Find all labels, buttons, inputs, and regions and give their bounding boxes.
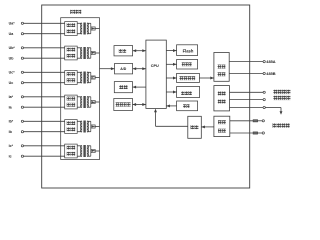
svg-text:Uc: Uc <box>9 81 14 85</box>
svg-text:Ua*: Ua* <box>9 22 16 26</box>
svg-text:485B: 485B <box>266 71 275 76</box>
svg-text:Ub: Ub <box>9 57 15 61</box>
svg-text:Ib*: Ib* <box>9 120 14 124</box>
svg-text:Ub*: Ub* <box>9 46 16 50</box>
svg-text:CPU: CPU <box>151 64 159 68</box>
svg-text:Ic*: Ic* <box>9 144 14 148</box>
svg-text:Ia*: Ia* <box>9 95 14 99</box>
svg-text:485A: 485A <box>266 59 275 64</box>
svg-text:Flash: Flash <box>183 48 194 53</box>
svg-text:Uc*: Uc* <box>9 71 16 75</box>
svg-text:Ic: Ic <box>9 155 12 159</box>
svg-text:A/D: A/D <box>120 67 127 71</box>
